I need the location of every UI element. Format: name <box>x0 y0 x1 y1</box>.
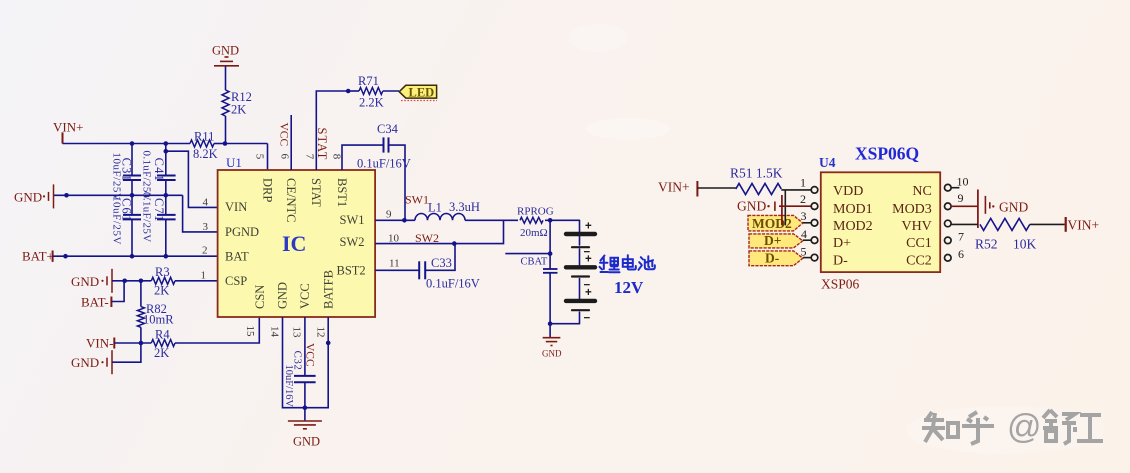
svg-text:1: 1 <box>800 176 806 190</box>
svg-text:1: 1 <box>201 270 207 282</box>
svg-text:VIN-: VIN- <box>86 336 113 351</box>
power port VIN- <box>86 336 114 351</box>
svg-text:10: 10 <box>957 175 969 189</box>
wire GND to R3 node <box>112 280 151 282</box>
wire GND net horizontal <box>54 194 183 196</box>
junction VIN branch <box>164 149 169 154</box>
wire GND vertical over flag <box>781 215 783 225</box>
net flag D+ <box>749 233 803 248</box>
svg-text:C41: C41 <box>152 158 166 182</box>
capacitor C71 <box>157 195 176 256</box>
connector U4 XSP06 body <box>821 172 940 272</box>
wire pin 9 MOD3 to GND <box>951 205 978 207</box>
ground symbol GND (BAT- node) <box>71 269 112 293</box>
wire R52 to VIN+ <box>1030 223 1065 225</box>
capacitor C41 <box>157 144 176 196</box>
battery polarity marks <box>584 221 593 325</box>
svg-text:MOD2: MOD2 <box>833 219 873 234</box>
svg-text:U4: U4 <box>819 155 836 170</box>
svg-text:VIN: VIN <box>225 200 247 214</box>
svg-text:11: 11 <box>389 258 400 270</box>
op-amp U1 IC body <box>218 170 376 317</box>
svg-text:6: 6 <box>958 247 964 261</box>
svg-text:BAT+: BAT+ <box>22 249 54 264</box>
svg-text:VIN+: VIN+ <box>53 120 83 135</box>
svg-text:GND: GND <box>212 44 239 58</box>
pin 10 stub wire <box>951 187 960 189</box>
svg-text:U1: U1 <box>226 155 242 170</box>
wire SW2 riser <box>375 220 503 243</box>
junction C41 top <box>164 141 169 146</box>
wire pin 14 GND down <box>283 317 305 408</box>
pin 9 terminal circle <box>945 203 952 210</box>
ground symbol GND (MOD3/VHV) <box>978 190 1029 229</box>
svg-text:XSP06Q: XSP06Q <box>855 144 919 164</box>
wire GND to pin3 PGND <box>183 195 218 232</box>
svg-text:MOD3: MOD3 <box>892 202 932 217</box>
svg-text:8.2K: 8.2K <box>193 147 218 161</box>
net flag LED <box>399 85 437 100</box>
pin 4 terminal circle <box>811 237 818 244</box>
pin 8 terminal circle <box>945 220 952 227</box>
power port BAT+ <box>22 249 54 264</box>
wire R3 to pin1 CSP <box>175 280 218 282</box>
capacitor CBAT <box>543 220 558 323</box>
svg-text:GND: GND <box>737 199 766 214</box>
ground symbol GND (C32) <box>288 408 322 449</box>
junction BAT+ port <box>63 254 68 259</box>
resistor R11 <box>190 140 214 147</box>
svg-text:10: 10 <box>388 232 400 244</box>
junction GND port <box>64 193 69 198</box>
svg-text:VCC: VCC <box>298 283 312 309</box>
svg-text:12V: 12V <box>614 278 644 297</box>
junction C71 bottom <box>164 254 169 259</box>
ground symbol GND (top, above R12) <box>212 44 239 66</box>
svg-text:STAT: STAT <box>309 178 323 207</box>
svg-text:CSP: CSP <box>225 274 247 288</box>
svg-text:PGND: PGND <box>225 225 259 239</box>
svg-text:BATFB: BATFB <box>321 270 335 309</box>
resistor R52 <box>980 218 1030 230</box>
svg-text:R51 1.5K: R51 1.5K <box>730 166 783 181</box>
svg-text:15: 15 <box>244 326 256 338</box>
svg-text:0.1uF/25V: 0.1uF/25V <box>141 192 153 243</box>
svg-text:GND: GND <box>71 274 99 289</box>
svg-text:CE/NTC: CE/NTC <box>284 178 298 222</box>
svg-text:C71: C71 <box>152 198 166 222</box>
svg-text:14: 14 <box>269 326 281 338</box>
junction CBAT <box>548 251 553 256</box>
svg-text:3: 3 <box>801 209 807 223</box>
wire RPROG to battery <box>545 219 580 221</box>
svg-text:3: 3 <box>203 221 209 233</box>
svg-text:GND: GND <box>71 355 99 370</box>
svg-text:3.3uH: 3.3uH <box>449 200 480 214</box>
net flag MOD2 <box>748 215 803 231</box>
svg-text:10K: 10K <box>1013 237 1037 252</box>
svg-text:GND: GND <box>276 282 290 309</box>
svg-text:12: 12 <box>315 327 327 338</box>
junction R82 top <box>139 279 144 284</box>
wire pin 12 BATFB down <box>305 317 328 408</box>
junction CBAT top <box>548 218 553 223</box>
pin 6 terminal circle <box>945 254 952 261</box>
ground symbol GND (VIN- node) <box>71 350 112 374</box>
svg-text:DRP: DRP <box>260 178 274 202</box>
junction battery ground <box>548 321 553 326</box>
wire battery bottom <box>550 323 579 325</box>
svg-text:2: 2 <box>800 192 806 206</box>
wire R51 junction vertical over flag <box>784 215 786 225</box>
pin 4 stub wire <box>803 239 812 241</box>
svg-text:5: 5 <box>253 154 265 160</box>
svg-text:D-: D- <box>765 250 779 265</box>
wire BAT+ net to pin2 <box>53 255 218 257</box>
wire L1 to RPROG <box>465 219 518 221</box>
resistor R51 <box>736 184 782 195</box>
svg-text:GND: GND <box>293 435 320 449</box>
svg-text:10mR: 10mR <box>143 313 174 327</box>
svg-text:D-: D- <box>833 253 848 268</box>
power port BAT- <box>81 295 111 310</box>
pin 5 stub wire <box>803 257 812 259</box>
svg-text:VCC: VCC <box>303 343 315 367</box>
svg-text:RPROG: RPROG <box>517 206 554 218</box>
svg-text:10uF/25V: 10uF/25V <box>111 196 123 245</box>
svg-text:8: 8 <box>330 154 342 160</box>
svg-text:STAT: STAT <box>315 128 329 161</box>
svg-text:2K: 2K <box>231 103 246 117</box>
ground symbol GND (battery) <box>542 324 562 359</box>
pin 3 stub wire <box>803 222 812 224</box>
svg-text:R71: R71 <box>358 74 379 88</box>
svg-text:GND: GND <box>999 200 1028 215</box>
svg-text:4: 4 <box>203 197 209 209</box>
svg-text:VIN+: VIN+ <box>658 180 690 195</box>
svg-text:20mΩ: 20mΩ <box>520 227 548 239</box>
svg-text:0.1uF/16V: 0.1uF/16V <box>357 157 411 171</box>
wire VIN- net <box>114 342 151 344</box>
svg-text:XSP06: XSP06 <box>821 277 860 292</box>
svg-text:MOD1: MOD1 <box>833 202 873 217</box>
capacitor C32 <box>294 317 316 408</box>
svg-text:D+: D+ <box>764 233 781 248</box>
watermark zhihu @shugong <box>922 412 994 444</box>
junction C32 bottom <box>303 405 308 410</box>
net label STAT wire (pin 7) <box>316 91 348 170</box>
svg-text:D+: D+ <box>833 236 851 251</box>
svg-text:NC: NC <box>912 184 931 199</box>
capacitor C33 <box>375 244 455 280</box>
power port VIN+ (top left) <box>53 120 83 144</box>
svg-text:10uF/25V: 10uF/25V <box>111 152 123 201</box>
svg-text:SW1: SW1 <box>340 213 365 227</box>
resistor R71 <box>348 88 399 95</box>
svg-text:R52: R52 <box>975 237 998 252</box>
wire GND to pin 2 MOD1 <box>779 205 811 207</box>
resistor R82 <box>137 281 144 343</box>
svg-text:L1: L1 <box>428 201 442 215</box>
wire VIN+ R11 to R12 junction <box>214 143 225 145</box>
svg-text:5: 5 <box>801 244 807 258</box>
wire R12 to VIN+ net <box>225 116 227 144</box>
wire GND riser to VIN- node <box>112 343 141 362</box>
junction R12/VIN+ <box>223 141 228 146</box>
inductor L1 <box>415 213 465 220</box>
junction C41/C71 <box>164 193 169 198</box>
svg-text:7: 7 <box>958 230 964 244</box>
resistor R4 <box>151 340 175 347</box>
wire R4 to pin15 CSN <box>175 317 259 343</box>
net label VCC (pin 6) <box>278 115 292 170</box>
svg-text:−: − <box>584 313 591 325</box>
wire CBAT net stub <box>505 253 550 255</box>
junction R71 left <box>346 89 351 94</box>
wire pin 9 SW1 <box>375 219 415 221</box>
pin 2 terminal circle <box>811 203 818 210</box>
svg-text:SW2: SW2 <box>340 235 365 249</box>
junction R82 bottom <box>139 341 144 346</box>
svg-text:GND: GND <box>542 349 562 359</box>
svg-text:VHV: VHV <box>901 219 931 234</box>
svg-text:C34: C34 <box>377 122 399 136</box>
svg-text:+: + <box>585 221 592 233</box>
svg-text:9: 9 <box>958 191 964 205</box>
svg-text:IC: IC <box>282 231 306 256</box>
svg-text:@: @ <box>1007 408 1042 446</box>
svg-text:13: 13 <box>291 327 303 339</box>
svg-text:GND: GND <box>14 190 42 205</box>
svg-text:CC2: CC2 <box>906 253 932 268</box>
wire pin5 vertical <box>267 144 269 171</box>
junction C61 bottom <box>130 254 135 259</box>
svg-text:2K: 2K <box>154 346 169 360</box>
svg-text:9: 9 <box>386 208 392 220</box>
resistor R3 <box>151 277 175 284</box>
capacitor C34 <box>342 137 405 221</box>
wire GND to R12 <box>225 66 227 90</box>
net flag D- <box>749 250 803 265</box>
label lithium battery <box>600 255 655 272</box>
capacitor C61 <box>123 195 141 256</box>
svg-text:0.1uF/16V: 0.1uF/16V <box>426 277 480 291</box>
junction BAT- riser <box>122 279 127 284</box>
resistor RPROG <box>520 217 543 223</box>
ground symbol GND (left, mid) <box>14 184 54 208</box>
svg-text:2.2K: 2.2K <box>359 96 384 110</box>
wire pin 8 VHV <box>951 223 978 225</box>
svg-text:LED: LED <box>409 86 435 100</box>
pin 10 terminal circle <box>945 184 952 191</box>
svg-text:VCC: VCC <box>278 123 290 147</box>
wire VIN+ net horizontal <box>63 143 191 145</box>
svg-text:CC1: CC1 <box>906 236 932 251</box>
svg-text:CBAT: CBAT <box>521 257 548 268</box>
junction pin12 <box>326 341 331 346</box>
power port VIN+ (XSP06 left) <box>658 180 697 197</box>
resistor R12 <box>222 90 229 116</box>
power port VIN+ (right) <box>1066 217 1099 232</box>
svg-text:10uF/16V: 10uF/16V <box>283 365 294 408</box>
svg-text:SW2: SW2 <box>415 231 439 245</box>
svg-text:R3: R3 <box>155 265 170 279</box>
pin 1 terminal circle <box>811 187 818 194</box>
svg-text:R4: R4 <box>155 328 170 342</box>
wire VIN+ to R51 <box>697 187 735 189</box>
wire VIN branch jog <box>166 151 218 207</box>
svg-text:7: 7 <box>304 154 316 160</box>
svg-text:VIN+: VIN+ <box>1068 217 1100 232</box>
junction SW1/C34 <box>402 218 407 223</box>
wire BAT- riser <box>111 281 124 302</box>
junction C33 top <box>452 241 457 246</box>
svg-text:2: 2 <box>202 245 208 257</box>
capacitor C31 <box>123 144 141 196</box>
ground symbol GND (MOD1) <box>737 195 782 225</box>
svg-text:BST2: BST2 <box>337 264 366 278</box>
svg-text:2K: 2K <box>154 284 169 298</box>
wire R51 to pin 1 <box>781 190 811 225</box>
pin 5 terminal circle <box>811 254 818 261</box>
svg-text:4: 4 <box>801 227 807 241</box>
pin 3 terminal circle <box>811 220 818 227</box>
svg-text:R11: R11 <box>194 130 214 144</box>
svg-text:+: + <box>585 287 592 299</box>
pin 7 terminal circle <box>945 237 952 244</box>
svg-text:BAT: BAT <box>225 250 249 264</box>
svg-text:6: 6 <box>279 154 291 160</box>
svg-text:BST1: BST1 <box>335 178 349 207</box>
junction C31 top <box>130 141 135 146</box>
battery BT1 (3 cells) <box>566 220 595 323</box>
svg-text:C33: C33 <box>431 256 452 270</box>
svg-text:CSN: CSN <box>253 285 267 309</box>
junction C31 bottom <box>130 193 135 198</box>
svg-text:VDD: VDD <box>833 184 863 199</box>
wire junction to pin5 corner <box>225 143 268 145</box>
svg-text:BAT-: BAT- <box>81 295 109 310</box>
svg-text:SW1: SW1 <box>405 193 429 207</box>
svg-text:+: + <box>585 254 592 266</box>
